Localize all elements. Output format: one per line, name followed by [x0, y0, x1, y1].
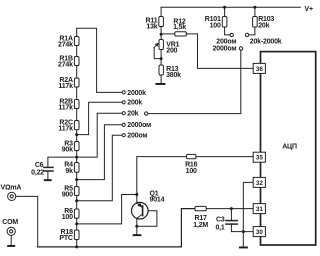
- junction R11/R12/VR1: [160, 33, 163, 36]
- wire R16 net from 20k row to pin35: [137, 157, 253, 203]
- svg-text:100: 100: [186, 168, 197, 175]
- junction tap R5/R6: [75, 199, 78, 202]
- resistor R16: [187, 154, 197, 158]
- svg-text:13k: 13k: [146, 23, 157, 30]
- svg-text:1,5k: 1,5k: [173, 24, 186, 31]
- wire R17 to pin31: [206, 208, 253, 210]
- switch contact 200k: [122, 101, 125, 104]
- resistor R3: [74, 142, 79, 151]
- pin 31: [253, 204, 265, 214]
- wire R1A-R1B: [76, 46, 78, 57]
- transistor Q1: [132, 202, 157, 226]
- junction R103 top: [253, 6, 256, 9]
- pin 35: [253, 152, 265, 162]
- wire R2A-R2B: [76, 87, 78, 100]
- junction tap R2C/R3: [75, 133, 78, 136]
- svg-text:36: 36: [256, 66, 264, 73]
- resistor R2B: [74, 100, 79, 109]
- switch contact 20k-2000k: [245, 33, 248, 36]
- svg-text:2000ом: 2000ом: [213, 45, 237, 52]
- wire VOmA to bottom rail: [16, 196, 38, 247]
- potentiometer VR1: [154, 34, 163, 58]
- svg-text:117k: 117k: [58, 105, 73, 112]
- capacitor C3: [226, 209, 253, 232]
- wire tap R6/R18 to collector: [77, 195, 137, 224]
- svg-text:VΩmA: VΩmA: [1, 184, 22, 191]
- pin 36: [253, 63, 265, 73]
- ground below C6: [44, 179, 52, 181]
- switch contact 200om/2000om: [230, 33, 233, 36]
- resistor R13: [159, 59, 163, 83]
- svg-text:PTC: PTC: [59, 235, 73, 242]
- ground pin30 net: [239, 247, 248, 249]
- junction ladder bottom: [75, 245, 78, 248]
- resistor R2A: [74, 78, 79, 87]
- svg-text:90k: 90k: [62, 147, 73, 154]
- terminal COM: [7, 227, 15, 245]
- junction R17/C3: [230, 207, 233, 210]
- wire R5-R6: [76, 196, 78, 210]
- wire pole to 20k wiper row: [148, 50, 241, 113]
- resistor R17: [195, 206, 206, 210]
- switch wiper contact 20k row: [145, 112, 148, 115]
- svg-text:30: 30: [256, 229, 264, 236]
- wire tap R3/R4 to 20k contact: [77, 113, 122, 157]
- switch contact 2000om: [122, 123, 125, 126]
- resistor R1A: [74, 37, 79, 46]
- resistor R5: [74, 187, 79, 196]
- node V+: [0, 0, 1, 1]
- svg-text:35: 35: [256, 155, 264, 162]
- wire tap R3/R4 to C6: [48, 157, 77, 167]
- wire pin32 to pin30 net: [243, 182, 253, 246]
- svg-text:117k: 117k: [58, 83, 73, 90]
- switch contact 200om: [122, 134, 125, 137]
- wire R6-R18: [76, 218, 78, 230]
- junction R101 top: [223, 6, 226, 9]
- junction tap R4/R5: [75, 178, 78, 181]
- svg-text:0,22: 0,22: [31, 170, 44, 177]
- junction tap R6/R18: [75, 222, 78, 225]
- wire top rail V+: [161, 6, 300, 8]
- wire tap R2C/R3 to 200k contact: [77, 102, 122, 134]
- wire R12 left lead: [161, 33, 175, 35]
- capacitor C6: [44, 167, 53, 179]
- ground below R13: [155, 83, 165, 85]
- svg-text:АЦП: АЦП: [282, 143, 297, 150]
- resistor R2C: [74, 121, 79, 130]
- svg-text:2000k: 2000k: [127, 90, 146, 97]
- svg-text:9k: 9k: [65, 168, 73, 175]
- wire R11 top lead: [160, 7, 162, 16]
- wire R18 bottom: [76, 240, 78, 247]
- resistor R11: [159, 17, 164, 35]
- switch contact 2000om pole: [239, 47, 242, 50]
- wire ladder top to 2000k contact: [77, 28, 122, 92]
- resistor R1B: [74, 57, 79, 66]
- svg-text:200ом: 200ом: [127, 133, 147, 140]
- resistor R101: [222, 7, 230, 35]
- wire bottom rail: [38, 209, 195, 247]
- resistor R6: [74, 209, 79, 218]
- resistor R12: [175, 32, 187, 36]
- pin 32: [253, 177, 265, 187]
- pin 30: [253, 227, 265, 237]
- terminal VOmA: [8, 192, 16, 200]
- wire tap R4/R5 to 2000om contact: [77, 125, 122, 180]
- svg-text:1,2M: 1,2M: [193, 222, 208, 229]
- resistor R103: [249, 7, 257, 35]
- switch contact 2000k: [122, 91, 125, 94]
- wire R3-R4: [76, 151, 78, 163]
- wire tap R5/R6 to 200om contact: [77, 135, 122, 201]
- junction collector: [135, 193, 138, 196]
- svg-text:274k: 274k: [58, 62, 73, 69]
- resistor R4: [74, 163, 79, 173]
- svg-text:117k: 117k: [58, 126, 73, 133]
- svg-text:20k: 20k: [127, 111, 138, 118]
- junction VR1 bottom: [160, 57, 163, 60]
- wire R1B-R2A: [76, 66, 78, 79]
- svg-text:32: 32: [256, 180, 264, 187]
- svg-text:COM: COM: [2, 219, 18, 226]
- svg-text:R17: R17: [194, 215, 207, 222]
- svg-text:0,1: 0,1: [215, 224, 224, 231]
- svg-text:V+: V+: [305, 6, 313, 13]
- svg-text:200: 200: [166, 48, 177, 55]
- svg-text:20k: 20k: [258, 23, 269, 30]
- svg-text:31: 31: [256, 206, 264, 213]
- svg-text:200ом: 200ом: [216, 38, 236, 45]
- junction pin30 net: [242, 230, 245, 233]
- wire R2B-R2C: [76, 109, 78, 121]
- svg-text:2000ом: 2000ом: [127, 122, 151, 129]
- ground below Q1: [133, 226, 142, 236]
- resistor R18: [74, 230, 79, 240]
- svg-text:100: 100: [210, 23, 221, 30]
- svg-text:C3: C3: [216, 217, 225, 224]
- IC U1 ADC box: [261, 52, 316, 245]
- svg-text:900: 900: [62, 192, 73, 199]
- svg-text:20k-2000k: 20k-2000k: [250, 38, 282, 45]
- wire R4-R5: [76, 172, 78, 186]
- wire R2C-R3: [76, 130, 78, 142]
- svg-text:380k: 380k: [166, 72, 181, 79]
- junction Q1 emitter-base node: [135, 225, 138, 228]
- svg-text:100: 100: [62, 214, 73, 221]
- svg-text:200k: 200k: [127, 100, 142, 107]
- junction tap R3/R4: [75, 156, 78, 159]
- svg-text:274k: 274k: [58, 42, 73, 49]
- wire R12 to pin36: [186, 34, 253, 69]
- switch contact 20k: [122, 112, 125, 115]
- svg-text:C6: C6: [35, 162, 44, 169]
- ground below COM: [7, 245, 15, 247]
- svg-text:9014: 9014: [150, 196, 165, 203]
